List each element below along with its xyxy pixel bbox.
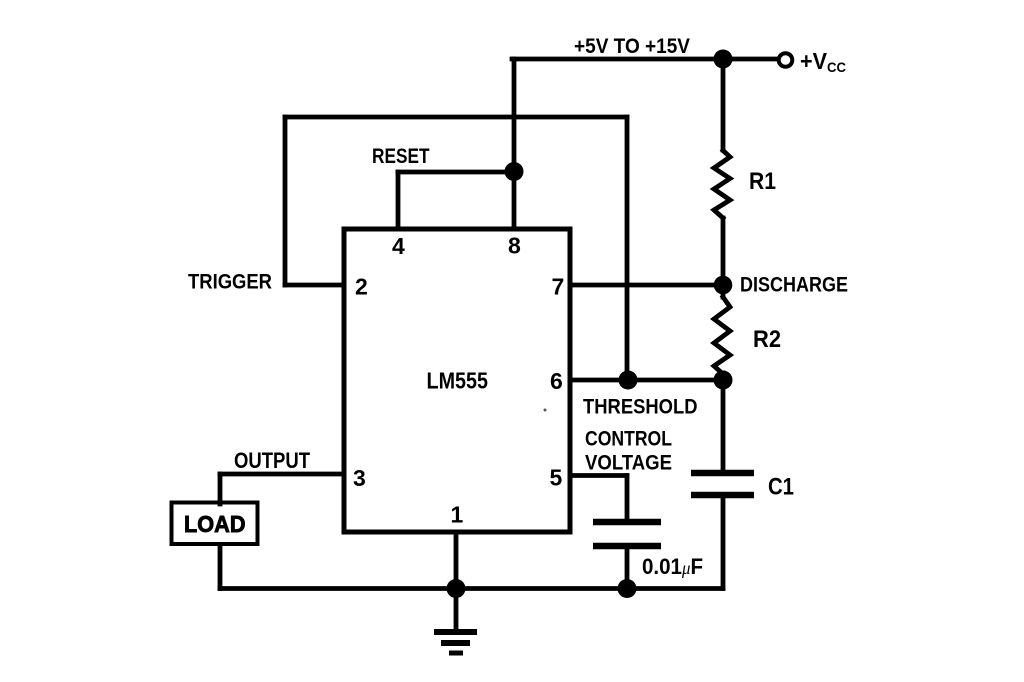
svg-text:CONTROL: CONTROL [585,427,672,451]
junction node reset-pin8 [505,162,524,181]
wire pin 4 vertical [396,172,401,229]
wire ground bus bottom horizontal [220,586,723,591]
svg-text:R2: R2 [753,326,781,353]
wire trigger-threshold tie top horizontal [285,115,627,120]
svg-text:8: 8 [508,233,521,259]
wire trigger-threshold tie left vertical [283,117,288,285]
capacitor C1 plates [691,473,754,495]
svg-text:THRESHOLD: THRESHOLD [583,395,698,419]
svg-text:2: 2 [355,274,368,300]
capacitor 0.01uF plates [593,522,661,546]
wire ground stub vertical [454,589,459,631]
wire discharge node to R2 vertical [721,285,726,297]
svg-text:0.01μF: 0.01μF [642,554,703,579]
junction node pin1-ground [447,579,466,598]
wire trigger-threshold tie right vertical [625,117,630,380]
wire threshold node to C1 vertical [721,380,726,472]
resistor R1 [714,151,730,219]
wire discharge pin 7 horizontal [570,283,723,288]
wire LOAD to ground bus vertical [218,545,223,589]
svg-text:5: 5 [550,465,563,491]
svg-text:VOLTAGE: VOLTAGE [585,451,672,475]
wire C1 bottom vertical [721,497,726,589]
stray speck [544,409,547,412]
wire pin 5 to capacitor vertical [625,476,630,522]
svg-text:7: 7 [552,274,565,300]
wire Vcc to R1 vertical [721,59,726,150]
svg-text:OUTPUT: OUTPUT [234,448,310,473]
junction node threshold-R2 [714,371,733,390]
junction node threshold left [619,371,638,390]
wire trigger pin 2 horizontal [285,283,344,288]
junction node Vcc-R1 [714,50,733,69]
svg-text:DISCHARGE: DISCHARGE [740,273,848,297]
wire output to LOAD vertical [218,474,223,504]
junction node discharge [714,276,733,295]
wire pin 1 vertical [454,532,459,589]
svg-text:C1: C1 [768,474,794,501]
ground [434,632,477,653]
wire R1 to discharge node vertical [721,218,726,285]
wire capacitor 0.01uF to ground bus vertical [625,547,630,589]
terminal +Vcc open circle [779,53,793,67]
op-amp U1 LM555 IC box [344,229,570,532]
resistor R2 [714,297,730,374]
LOAD box [172,503,258,545]
svg-text:4: 4 [392,233,405,259]
wire reset horizontal [398,170,514,175]
svg-text:3: 3 [353,465,366,491]
junction node cap-ground bus [618,579,637,598]
svg-text:6: 6 [550,368,563,394]
svg-text:+5V TO +15V: +5V TO +15V [574,35,690,58]
wire output pin 3 horizontal [220,472,344,477]
wire pin 8 vertical [512,59,517,229]
svg-text:TRIGGER: TRIGGER [188,270,272,294]
svg-text:RESET: RESET [372,144,430,168]
svg-text:LOAD: LOAD [184,511,246,537]
wire R2 to threshold node vertical [721,373,726,380]
svg-text:+V: +V [800,48,828,74]
svg-text:R1: R1 [749,168,776,195]
svg-text:LM555: LM555 [427,368,489,394]
wire control voltage pin 5 horizontal [570,473,627,478]
wire +Vcc supply horizontal [512,57,778,62]
wire threshold pin 6 horizontal [570,378,723,383]
svg-text:CC: CC [827,59,846,75]
svg-text:1: 1 [451,502,464,528]
